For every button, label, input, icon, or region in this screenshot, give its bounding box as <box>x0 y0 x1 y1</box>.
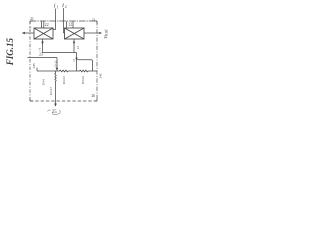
svg-text:R644: R644 <box>81 76 85 84</box>
tick near border crossing <box>29 26 32 29</box>
ground squiggle <box>47 110 50 111</box>
wire left box bottom <box>42 39 44 53</box>
label 22 (right) <box>69 22 73 26</box>
arrow down (right box output current) <box>73 42 75 45</box>
arrow down (left box output current) <box>41 42 43 45</box>
label 23 <box>39 53 43 57</box>
wire drop 2 <box>76 53 78 72</box>
label 26 bottom right <box>92 94 96 98</box>
ground label 25 <box>52 110 57 115</box>
svg-text:21: 21 <box>92 18 96 22</box>
terminal i1 label <box>54 3 59 10</box>
current label right <box>76 46 80 49</box>
node label 24 (left) <box>32 63 36 68</box>
wire drop to node B <box>56 58 58 71</box>
svg-text:i2: i2 <box>76 46 80 49</box>
wire hook left end <box>36 68 38 72</box>
svg-text:246: 246 <box>99 73 103 78</box>
svg-text:22: 22 <box>69 22 73 26</box>
arrow ground terminal <box>54 104 57 107</box>
svg-text:R647: R647 <box>49 87 53 96</box>
wire bus B with resistors <box>37 70 97 72</box>
resistor label R641 <box>41 79 45 85</box>
svg-text:21: 21 <box>30 17 34 21</box>
arrow down drop 2 <box>75 58 77 61</box>
wire i1 input <box>53 9 56 30</box>
multiplier box 22 (right) <box>65 28 85 39</box>
wire summing node A <box>43 52 77 54</box>
wire bypass branch <box>77 60 92 71</box>
current label left <box>38 47 42 50</box>
svg-text:i: i <box>54 3 56 10</box>
multiplier box 22 (left) <box>34 28 53 39</box>
label right border <box>99 73 103 78</box>
output arrow left <box>24 32 35 34</box>
svg-text:23: 23 <box>39 53 43 57</box>
svg-text:2: 2 <box>65 5 67 9</box>
current label node B <box>54 60 58 67</box>
svg-text:245: 245 <box>32 63 36 68</box>
IC boundary box 21 (chain line) <box>30 21 97 101</box>
terminal i2 label <box>62 2 67 9</box>
wire input 23 <box>28 57 58 59</box>
svg-text:FIG.15: FIG.15 <box>5 38 15 67</box>
label top right corner <box>92 18 96 22</box>
svg-text:i1: i1 <box>38 47 42 50</box>
wire Vout <box>84 32 101 34</box>
label Vout <box>104 29 109 39</box>
label 22 (left) <box>45 23 49 27</box>
svg-text:26: 26 <box>92 94 96 98</box>
label 21 <box>30 17 34 21</box>
svg-text:22: 22 <box>45 23 49 27</box>
svg-text:i3: i3 <box>72 59 76 62</box>
resistor R642 (vertical to ground) <box>55 71 56 104</box>
svg-text:1: 1 <box>57 5 59 9</box>
right box top stubs <box>66 21 68 28</box>
svg-text:i1+i2: i1+i2 <box>54 60 58 67</box>
left box top stubs <box>41 21 43 28</box>
figure title FIG.15 <box>5 38 15 67</box>
svg-text:R643: R643 <box>62 76 66 84</box>
svg-text:R64: R64 <box>41 79 45 85</box>
wire right box bottom <box>73 39 75 53</box>
resistor label R642 <box>49 87 53 96</box>
wire i2 input <box>64 8 65 33</box>
resistor label R643 <box>62 76 66 84</box>
svg-text:Vout: Vout <box>104 29 109 39</box>
current label drop 2 <box>72 59 76 62</box>
resistor label R644 <box>81 76 85 84</box>
arrow down node B <box>56 68 58 71</box>
